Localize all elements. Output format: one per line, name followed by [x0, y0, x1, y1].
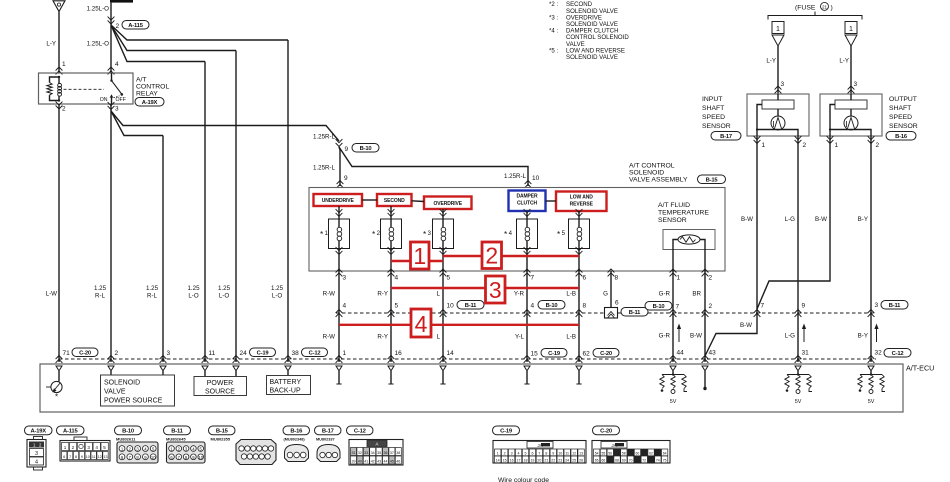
svg-text:2: 2	[485, 243, 498, 269]
svg-text:1.25: 1.25	[271, 285, 284, 292]
svg-text:75: 75	[663, 459, 667, 463]
solenoid coil *4 (DAMPER CLUTCH)	[517, 219, 538, 249]
svg-text:1: 1	[677, 275, 681, 282]
svg-text:R-L: R-L	[95, 293, 106, 300]
svg-text:1: 1	[835, 142, 839, 149]
svg-text:CONTROL: CONTROL	[136, 84, 169, 91]
svg-text:14: 14	[447, 350, 455, 357]
svg-text:*2 :: *2 :	[549, 1, 558, 8]
svg-text:OUTPUT: OUTPUT	[889, 96, 917, 103]
wire label box to solenoid SECOND	[390, 206, 392, 219]
svg-text:OVERDRIVE: OVERDRIVE	[433, 201, 462, 207]
sensor ground rail	[757, 105, 798, 137]
wire fan from A-115 node to pin-11 branch	[111, 25, 205, 62]
svg-text:2: 2	[115, 350, 119, 357]
svg-text:58: 58	[622, 452, 626, 456]
pin 9 of solenoid assembly	[337, 181, 344, 188]
svg-text:16: 16	[510, 459, 514, 463]
ECU connector dashed line row C-12/C-19/C-20	[59, 358, 876, 360]
assembly bottom pin chevrons and numbers	[336, 269, 343, 276]
wire fan from A-115 node to C-12 branch	[111, 25, 288, 40]
wire label box to solenoid LOW AND REVERSE	[578, 211, 580, 219]
svg-text:1.25: 1.25	[187, 285, 200, 292]
svg-text:B-17: B-17	[322, 429, 334, 435]
wire label box to solenoid OVERDRIVE	[442, 209, 444, 219]
svg-text:21: 21	[544, 459, 548, 463]
svg-text:ON: ON	[100, 97, 108, 103]
fuse connector triangle at x=851	[845, 35, 857, 46]
fuse bracket	[768, 16, 862, 20]
svg-text:*4 :: *4 :	[549, 28, 558, 35]
svg-text:L-Y: L-Y	[46, 41, 56, 48]
svg-text:5V: 5V	[868, 399, 875, 405]
ECU pull-up network pin 32	[870, 371, 872, 374]
box POWER SOURCE	[204, 371, 206, 377]
wire L-Y fuse to sensor pin3 x=778	[777, 46, 779, 94]
pin 3 of relay	[108, 102, 115, 109]
svg-text:*5 :: *5 :	[549, 47, 558, 54]
svg-text:UNDERDRIVE: UNDERDRIVE	[322, 198, 355, 204]
wire vertical x=163 to ECU pin 3	[162, 136, 164, 363]
svg-text:SPEED: SPEED	[889, 114, 912, 121]
svg-text:1: 1	[849, 26, 853, 33]
svg-text:11: 11	[565, 452, 569, 456]
connector drawing B-10	[117, 442, 158, 463]
solenoid label box LOW AND REVERSE	[556, 192, 607, 212]
relay connector label A-19X	[135, 98, 164, 107]
svg-text:8: 8	[545, 452, 547, 456]
svg-text:23: 23	[558, 459, 562, 463]
sensor pins 1 and 2	[754, 136, 761, 143]
wire below solenoid *1	[336, 247, 343, 254]
svg-text:REVERSE: REVERSE	[570, 202, 594, 208]
svg-text:3: 3	[115, 106, 119, 113]
svg-text:1: 1	[413, 243, 426, 269]
svg-text:SOLENOID VALVE: SOLENOID VALVE	[566, 54, 618, 61]
svg-text:*: *	[55, 393, 58, 402]
svg-text:4: 4	[95, 445, 98, 450]
svg-text:39: 39	[352, 460, 356, 464]
connector drawing C-20	[592, 441, 670, 464]
svg-text:B-10: B-10	[122, 429, 134, 435]
svg-text:31: 31	[352, 451, 356, 455]
battery feed bar (cut off box at top)	[110, 0, 133, 3]
svg-text:10: 10	[198, 455, 203, 460]
solenoid label box OVERDRIVE	[424, 197, 472, 210]
current direction arrow pin 44	[678, 327, 680, 342]
svg-text:2: 2	[709, 303, 713, 310]
fuse connector box at x=851	[845, 22, 857, 34]
svg-text:64: 64	[663, 452, 667, 456]
svg-text:2: 2	[876, 142, 880, 149]
svg-text:6: 6	[63, 455, 65, 459]
ECU pin 43 internal ground stub	[704, 371, 706, 387]
wire below solenoid *4	[524, 247, 531, 254]
svg-text:C-19: C-19	[548, 351, 561, 357]
svg-text:12: 12	[572, 452, 576, 456]
svg-text:L-B: L-B	[566, 291, 576, 298]
svg-text:69: 69	[622, 459, 626, 463]
svg-text:4: 4	[35, 460, 38, 466]
svg-text:10: 10	[151, 455, 156, 460]
svg-text:L-G: L-G	[785, 333, 796, 340]
svg-text:5: 5	[525, 452, 527, 456]
svg-text:66: 66	[602, 459, 606, 463]
relay switch contact from pin 4	[111, 73, 113, 80]
svg-text:2: 2	[803, 142, 807, 149]
svg-text:B-Y: B-Y	[858, 333, 868, 340]
fuse connector triangle at x=778	[772, 35, 784, 46]
svg-text:9: 9	[345, 146, 349, 153]
svg-text:40: 40	[358, 460, 362, 464]
relay switch lower contact with arrow	[111, 97, 113, 104]
svg-text:R-L: R-L	[147, 293, 158, 300]
svg-text:5: 5	[103, 445, 106, 450]
svg-text:INPUT: INPUT	[702, 96, 722, 103]
fuse connector box at x=778	[772, 22, 784, 34]
svg-text:VALVE ASSEMBLY: VALVE ASSEMBLY	[629, 177, 688, 184]
solenoid label box UNDERDRIVE	[314, 194, 363, 206]
svg-text:1.25: 1.25	[146, 285, 159, 292]
svg-text:5V: 5V	[795, 399, 802, 405]
wire B-W output sensor pin1 joins input ground	[757, 136, 830, 309]
thermistor symbol	[678, 235, 700, 244]
svg-text:62: 62	[649, 452, 653, 456]
svg-text:11: 11	[92, 455, 96, 459]
sensor internal circuit block	[762, 100, 794, 109]
svg-text:4: 4	[531, 303, 535, 310]
svg-text:(MU802348): (MU802348)	[284, 438, 306, 442]
svg-text:A/T-ECU: A/T-ECU	[906, 364, 934, 373]
connector drawing B-15	[236, 440, 276, 465]
svg-text:3: 3	[854, 81, 858, 88]
solenoid coil *3 (OVERDRIVE)	[433, 219, 454, 249]
connector label C-12 (bottom)	[347, 426, 374, 435]
connector drawing C-19	[493, 441, 586, 464]
red annotation box 3	[486, 276, 506, 303]
svg-text:L: L	[437, 334, 441, 341]
svg-text:1: 1	[776, 26, 780, 33]
current direction arrow pin 31	[803, 327, 805, 342]
svg-text:55: 55	[602, 452, 606, 456]
svg-text:3: 3	[35, 451, 38, 457]
svg-text:9: 9	[81, 455, 83, 459]
svg-text:3: 3	[511, 452, 513, 456]
svg-text:B-16: B-16	[290, 429, 303, 435]
svg-text:26: 26	[579, 459, 583, 463]
connector label B-17 (bottom)	[315, 426, 342, 435]
svg-text:14: 14	[496, 459, 500, 463]
svg-text:Y-L: Y-L	[515, 334, 525, 341]
svg-text:A/T: A/T	[136, 77, 147, 84]
sensor pickup element (circle)	[777, 109, 779, 116]
svg-text:2: 2	[62, 106, 66, 113]
solenoid coil *1 (UNDERDRIVE)	[329, 219, 350, 249]
ECU pull-up network pin 44	[672, 371, 674, 374]
svg-text:SENSOR: SENSOR	[658, 217, 687, 224]
red annotation line 2	[443, 255, 579, 257]
svg-text:A-19X: A-19X	[142, 100, 158, 106]
svg-text:B-W: B-W	[815, 216, 827, 223]
row1 chevrons	[336, 310, 343, 317]
svg-text:DAMPER: DAMPER	[516, 194, 538, 200]
row2 chevrons	[56, 356, 63, 363]
svg-text:38: 38	[396, 451, 400, 455]
svg-text:B-11: B-11	[465, 303, 477, 309]
svg-text:70: 70	[629, 459, 633, 463]
svg-text:Wire colour code: Wire colour code	[498, 477, 549, 482]
svg-text:65: 65	[595, 459, 599, 463]
svg-text:10: 10	[532, 175, 540, 182]
svg-text:54: 54	[595, 452, 599, 456]
svg-text:2: 2	[72, 445, 75, 450]
sensor internal circuit block	[835, 100, 867, 109]
wire below solenoid *5	[576, 247, 583, 254]
svg-text:8: 8	[615, 275, 619, 282]
relay coil branch junctions and leads	[58, 76, 60, 78]
svg-text:7: 7	[676, 304, 680, 311]
svg-text:BACK-UP: BACK-UP	[270, 388, 301, 395]
red annotation line 3	[391, 287, 579, 289]
wire node to assembly pin 9	[339, 147, 340, 186]
svg-text:8: 8	[583, 303, 587, 310]
svg-text:9: 9	[552, 452, 554, 456]
svg-text:A-115: A-115	[128, 23, 143, 29]
relay coil L1	[58, 77, 60, 84]
svg-text:7: 7	[69, 455, 71, 459]
connector label B-10 (bottom)	[115, 426, 142, 435]
relay switch blade (OFF position)	[112, 81, 122, 95]
svg-text:1.25: 1.25	[218, 285, 231, 292]
svg-text:C-12: C-12	[354, 429, 366, 435]
connector drawing A-115	[74, 437, 87, 441]
svg-text:3: 3	[489, 277, 502, 303]
svg-text:SOLENOID: SOLENOID	[104, 380, 140, 387]
svg-text:C-20: C-20	[600, 429, 612, 435]
red annotation box 1	[411, 242, 430, 269]
svg-text:13: 13	[104, 455, 108, 459]
svg-text:L-Y: L-Y	[766, 58, 776, 65]
svg-text:6: 6	[531, 452, 533, 456]
svg-text:B-W: B-W	[690, 333, 702, 340]
ECU solenoid driver stubs	[338, 371, 340, 384]
svg-text:B-17: B-17	[720, 134, 732, 140]
svg-text:4: 4	[415, 311, 428, 337]
svg-text:1.25R-L: 1.25R-L	[313, 134, 336, 141]
svg-text:L-W: L-W	[46, 291, 58, 298]
wire L-G input sensor pin2 to ECU pin 31	[797, 136, 799, 362]
svg-text:45: 45	[390, 460, 394, 464]
svg-text:1: 1	[762, 142, 766, 149]
svg-text:2: 2	[709, 275, 713, 282]
svg-text:3: 3	[87, 445, 90, 450]
svg-text:B-10: B-10	[546, 303, 558, 309]
wire below solenoid *3	[440, 247, 447, 254]
svg-text:CLUTCH: CLUTCH	[517, 201, 537, 207]
svg-text:G-R: G-R	[659, 333, 671, 340]
sensor pickup element (circle)	[850, 109, 852, 116]
wire B-W input sensor pin1	[705, 136, 757, 356]
svg-text:6: 6	[615, 300, 619, 307]
pin 2 of relay	[56, 102, 63, 109]
svg-text:9: 9	[802, 303, 806, 310]
svg-text:13: 13	[579, 452, 583, 456]
box SOLENOID VALVE POWER SOURCE	[110, 371, 112, 375]
speed sensor box at x=820	[820, 94, 882, 136]
ECU internal ground (pin 71)	[58, 371, 60, 382]
svg-text:C-19: C-19	[257, 350, 270, 356]
svg-text:SENSOR: SENSOR	[702, 123, 731, 130]
svg-text:6: 6	[583, 275, 587, 282]
svg-text:15: 15	[503, 459, 507, 463]
wire label box to solenoid UNDERDRIVE	[338, 206, 340, 219]
connector label C-19 (bottom)	[493, 426, 520, 435]
svg-text:A-19X: A-19X	[31, 429, 47, 435]
solenoid label box SECOND	[377, 194, 412, 206]
svg-text:46: 46	[396, 460, 400, 464]
svg-text:72: 72	[642, 459, 646, 463]
svg-text:G-R: G-R	[659, 291, 671, 298]
svg-text:3: 3	[167, 350, 171, 357]
svg-text:SPEED: SPEED	[702, 114, 725, 121]
svg-text:L-O: L-O	[219, 293, 230, 300]
svg-text:16: 16	[395, 350, 403, 357]
intermediate connector dashed line row B-10/B-11	[336, 312, 876, 314]
svg-text:B-16: B-16	[895, 134, 908, 140]
svg-text:1.25: 1.25	[94, 285, 107, 292]
svg-text:L: L	[437, 291, 441, 298]
link wire damper-lowrev	[546, 200, 557, 202]
svg-text:B-10: B-10	[360, 146, 372, 152]
svg-text:SHAFT: SHAFT	[889, 105, 911, 112]
svg-text:20: 20	[537, 459, 541, 463]
node 9 connector B-10	[336, 139, 343, 146]
wire 1.25L-O from top to A-115 node	[110, 3, 112, 73]
svg-text:B-W: B-W	[740, 322, 752, 329]
wire G from assembly pin 8	[610, 271, 612, 308]
svg-text:56: 56	[608, 452, 612, 456]
svg-text:1.25R-L: 1.25R-L	[504, 173, 527, 180]
relay resistor R (parallel with coil)	[50, 77, 60, 83]
svg-text:OFF: OFF	[116, 97, 126, 103]
svg-text:A: A	[376, 441, 379, 446]
svg-text:R-Y: R-Y	[377, 334, 388, 341]
temp sensor lead pin 1	[673, 240, 678, 363]
svg-text:B-10: B-10	[653, 304, 665, 310]
svg-text:31: 31	[802, 350, 810, 357]
svg-text:L-G: L-G	[785, 216, 796, 223]
ECU entry terminals (open triangles)	[56, 366, 62, 371]
svg-text:MU802355: MU802355	[211, 437, 231, 442]
box BATTERY BACK-UP	[287, 371, 289, 376]
svg-text:4: 4	[115, 61, 119, 68]
red annotation line 1	[391, 260, 443, 262]
svg-text:POWER: POWER	[207, 380, 233, 387]
svg-text:Y-R: Y-R	[514, 291, 525, 298]
svg-text:C-20: C-20	[79, 350, 91, 356]
svg-text:19: 19	[530, 459, 534, 463]
svg-text:RELAY: RELAY	[136, 91, 158, 98]
wire branch pin3 to x=163 vertical	[111, 111, 163, 136]
svg-text:5: 5	[395, 303, 399, 310]
svg-text:10: 10	[447, 303, 455, 310]
svg-text:9: 9	[344, 175, 348, 182]
svg-text:34: 34	[371, 451, 375, 455]
red annotation line 4	[339, 324, 579, 326]
connector label A-115 (bottom)	[57, 426, 85, 435]
svg-text:SECOND: SECOND	[384, 198, 405, 204]
red annotation box 4	[411, 309, 431, 337]
connector drawing B-16	[285, 445, 309, 462]
svg-text:36: 36	[384, 451, 388, 455]
svg-text:7: 7	[531, 275, 535, 282]
svg-text:A-115: A-115	[63, 429, 78, 435]
connector label B-16 (bottom)	[283, 426, 310, 435]
svg-text:VALVE: VALVE	[104, 389, 126, 396]
svg-text:A/T CONTROL: A/T CONTROL	[629, 163, 675, 170]
svg-text:SHAFT: SHAFT	[702, 105, 724, 112]
svg-text:43: 43	[709, 350, 717, 357]
svg-text:SOURCE: SOURCE	[205, 389, 235, 396]
svg-text:38: 38	[292, 350, 300, 357]
wire relay pin 2 down to ECU pin 71	[58, 104, 60, 362]
svg-text:POWER SOURCE: POWER SOURCE	[104, 398, 163, 405]
temperature sensor box	[663, 230, 715, 250]
svg-text:*3 :: *3 :	[549, 14, 558, 21]
sensor pins 1 and 2	[827, 136, 834, 143]
wire relay pin 3 node down to ECU pin 2	[110, 104, 112, 362]
svg-text:7: 7	[761, 303, 765, 310]
svg-text:4: 4	[518, 452, 520, 456]
svg-text:3: 3	[343, 275, 347, 282]
svg-text:10: 10	[558, 452, 562, 456]
svg-text:42: 42	[371, 460, 375, 464]
svg-text:BATTERY: BATTERY	[270, 379, 302, 386]
svg-text:MU802645: MU802645	[166, 437, 186, 442]
svg-text:R-W: R-W	[323, 334, 336, 341]
svg-text:): )	[831, 5, 833, 12]
svg-text:3: 3	[875, 302, 879, 309]
svg-text:BR: BR	[692, 291, 701, 298]
svg-text:SOLENOID: SOLENOID	[629, 170, 664, 177]
wire L-Y fuse to sensor pin3 x=851	[850, 46, 852, 94]
assembly connector label B-15	[698, 175, 726, 184]
svg-text:C-19: C-19	[500, 429, 513, 435]
svg-text:71: 71	[63, 350, 71, 357]
wire node to assembly pin 10 (1.25R-L)	[339, 147, 528, 186]
solenoid coil *5 (LOW AND REVERSE)	[569, 219, 590, 249]
svg-text:SENSOR: SENSOR	[889, 123, 918, 130]
svg-text:10: 10	[86, 455, 90, 459]
svg-text:22: 22	[551, 459, 555, 463]
svg-text:4: 4	[395, 275, 399, 282]
connector triangle (fusible link, top left)	[53, 1, 65, 12]
pin 1 of relay	[56, 67, 63, 74]
connector drawing C-12	[349, 440, 403, 466]
svg-text:L-O: L-O	[188, 293, 199, 300]
link wire second-overdrive	[412, 200, 425, 203]
svg-text:B-11: B-11	[889, 303, 901, 309]
svg-text:74: 74	[656, 459, 660, 463]
svg-text:12: 12	[98, 455, 102, 459]
solenoid label box DAMPER CLUTCH	[509, 191, 546, 212]
connector label B-11 (bottom)	[164, 426, 191, 435]
svg-text:1: 1	[497, 452, 499, 456]
svg-text:(FUSE: (FUSE	[795, 5, 816, 12]
wire label box to solenoid DAMPER CLUTCH	[526, 211, 528, 219]
connector label A-19X (bottom)	[25, 426, 53, 435]
svg-text:B-Y: B-Y	[858, 216, 868, 223]
